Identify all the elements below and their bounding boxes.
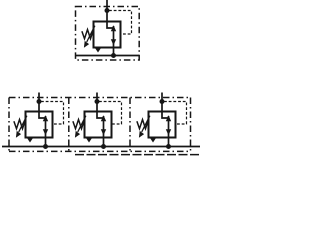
manifold boundary right edge bbox=[190, 98, 192, 152]
supply line V2 (bottom-middle relief valve) bbox=[96, 93, 98, 112]
drain arrow V1 (bottom-left relief valve) bbox=[27, 138, 33, 143]
pilot line V2 (bottom-middle relief valve) (dashed) bbox=[99, 102, 122, 125]
junction dot V1 (bottom-left relief valve) pilot tap bbox=[37, 99, 42, 104]
spring V0 (top relief valve) (adjustable) bbox=[82, 30, 94, 39]
divider edge between block 2 and 3 bbox=[129, 98, 131, 152]
valve body V3 (bottom-right relief valve) bbox=[149, 112, 176, 138]
outlet junction dot V0 (top relief valve) bbox=[111, 53, 116, 58]
pilot line V1 (bottom-left relief valve) (dashed) bbox=[41, 102, 64, 125]
internal flow path V0 (top relief valve) bbox=[107, 22, 114, 29]
spring V1 (bottom-left relief valve) (adjustable) bbox=[14, 120, 26, 129]
flow arrow heads V3 (bottom-right relief valve) bbox=[166, 115, 171, 121]
divider edge between block 1 and 2 bbox=[68, 98, 70, 152]
spring V3 (bottom-right relief valve) (adjustable) bbox=[137, 120, 149, 129]
enclosure (dash-dot block boundary) V0 (top relief valve) bbox=[76, 7, 140, 61]
pilot line V0 (top relief valve) (dashed) bbox=[109, 11, 132, 35]
flow arrow heads V2 (bottom-middle relief valve) bbox=[101, 115, 106, 121]
internal flow path V3 (bottom-right relief valve) bbox=[162, 112, 169, 119]
outlet line V2 (bottom-middle relief valve) bbox=[103, 138, 105, 147]
flow arrow heads V1 (bottom-left relief valve) bbox=[43, 115, 48, 121]
valve body V0 (top relief valve) bbox=[94, 22, 121, 48]
junction dot V0 (top relief valve) pilot tap bbox=[105, 8, 110, 13]
tank return line (bottom bus) bbox=[2, 146, 200, 148]
spring adjust arrow V3 (bottom-right relief valve) bbox=[142, 116, 150, 132]
supply line V1 (bottom-left relief valve) bbox=[38, 93, 40, 112]
manifold boundary top edge (dash-dot bus) bbox=[9, 97, 191, 99]
outlet junction dot V2 (bottom-middle relief valve) bbox=[101, 144, 106, 149]
manifold boundary left edge bbox=[8, 98, 10, 152]
outlet line V0 (top relief valve) bbox=[113, 48, 115, 56]
outlet junction dot V1 (bottom-left relief valve) bbox=[43, 144, 48, 149]
internal flow path V1 (bottom-left relief valve) bbox=[39, 112, 46, 119]
outlet junction dot V3 (bottom-right relief valve) bbox=[166, 144, 171, 149]
cropped line at bottom edge bbox=[75, 154, 200, 156]
spring adjust arrow V0 (top relief valve) bbox=[87, 26, 95, 42]
junction dot V2 (bottom-middle relief valve) pilot tap bbox=[95, 99, 100, 104]
supply line V3 (bottom-right relief valve) bbox=[161, 93, 163, 112]
drain arrow V0 (top relief valve) bbox=[95, 48, 101, 53]
valve body V2 (bottom-middle relief valve) bbox=[85, 112, 112, 138]
tank line V0 (top relief valve) bbox=[76, 55, 140, 57]
spring adjust arrow V2 (bottom-middle relief valve) bbox=[78, 116, 86, 132]
flow arrow heads V0 (top relief valve) bbox=[111, 25, 116, 31]
spring V2 (bottom-middle relief valve) (adjustable) bbox=[73, 120, 85, 129]
valve body V1 (bottom-left relief valve) bbox=[26, 112, 53, 138]
outlet line V1 (bottom-left relief valve) bbox=[45, 138, 47, 147]
drain arrow V2 (bottom-middle relief valve) bbox=[86, 138, 92, 143]
outlet line V3 (bottom-right relief valve) bbox=[168, 138, 170, 147]
junction dot V3 (bottom-right relief valve) pilot tap bbox=[160, 99, 165, 104]
pilot line V3 (bottom-right relief valve) (dashed) bbox=[164, 102, 187, 125]
supply line V0 (top relief valve) bbox=[106, 0, 108, 22]
manifold boundary bottom edge (dash-dot) bbox=[9, 150, 191, 152]
spring adjust arrow V1 (bottom-left relief valve) bbox=[19, 116, 27, 132]
drain arrow V3 (bottom-right relief valve) bbox=[150, 138, 156, 143]
internal flow path V2 (bottom-middle relief valve) bbox=[97, 112, 104, 119]
